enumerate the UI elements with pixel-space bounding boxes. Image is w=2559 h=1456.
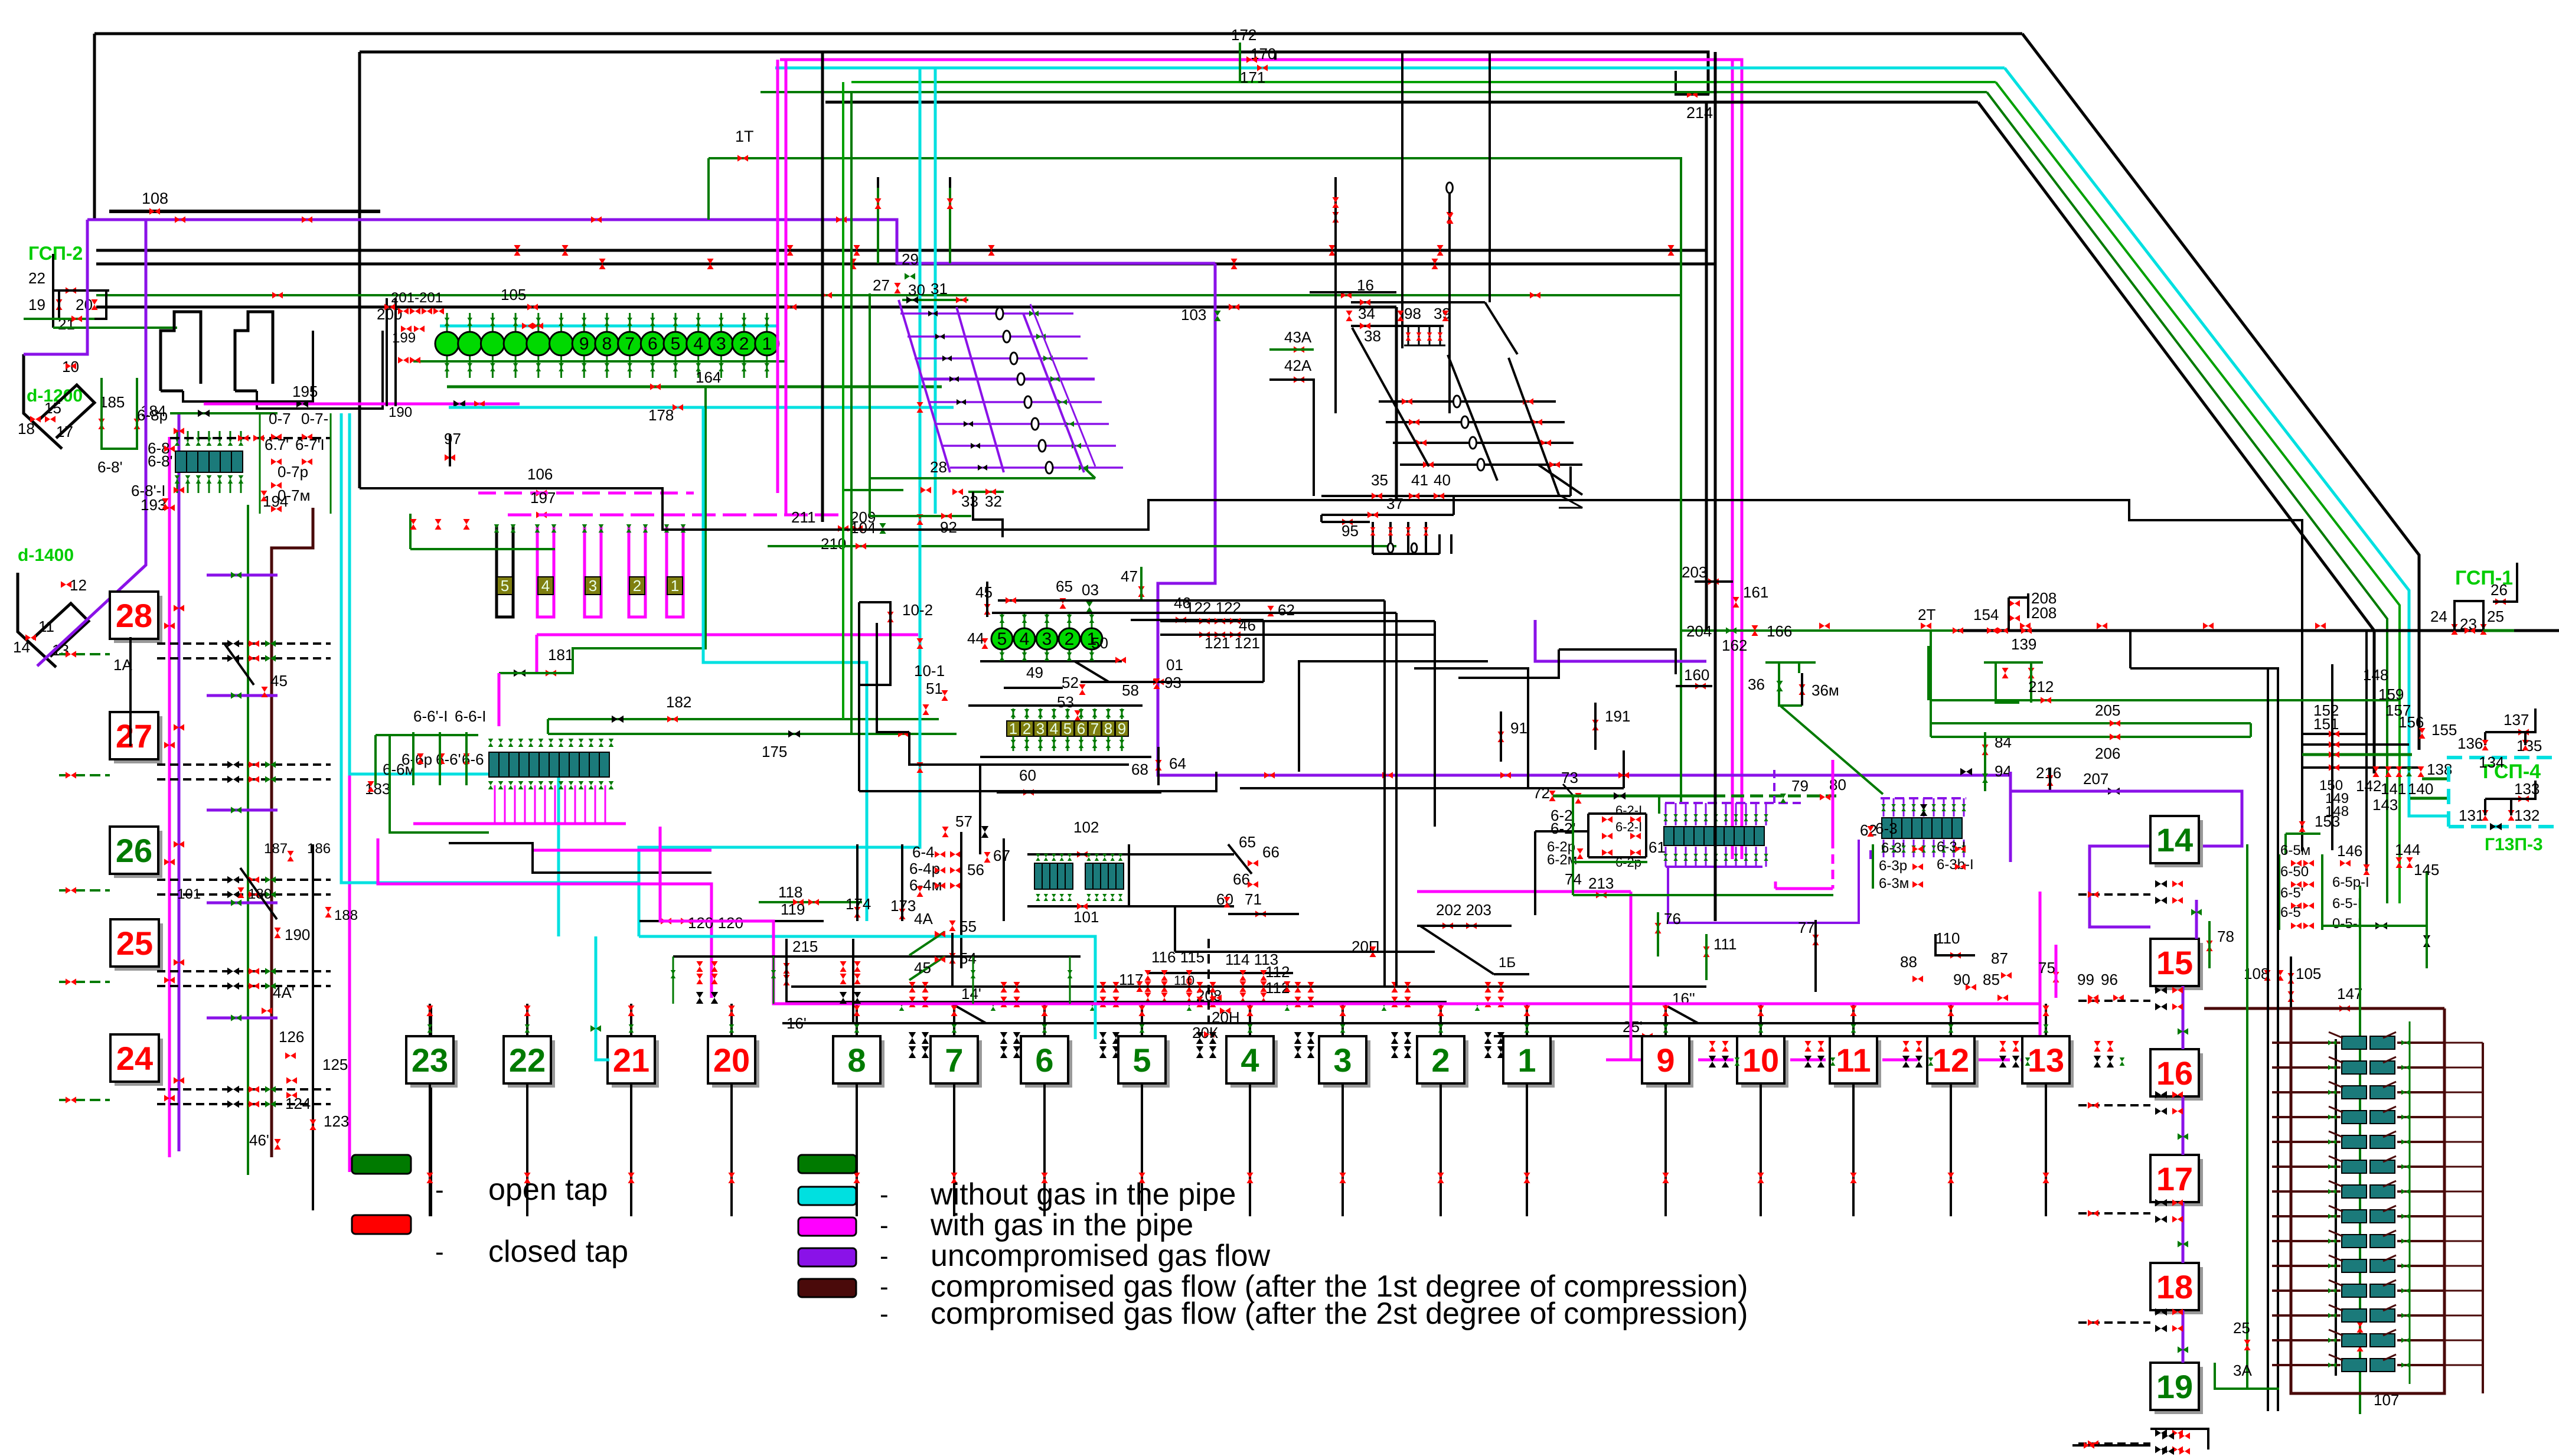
svg-text:56: 56	[967, 861, 984, 879]
svg-text:71: 71	[1245, 890, 1262, 908]
svg-text:45: 45	[975, 583, 993, 601]
valve cluster	[1000, 982, 1007, 993]
svg-text:181: 181	[548, 646, 573, 664]
1T green line	[709, 158, 1681, 803]
svg-text:72: 72	[1533, 784, 1550, 802]
svg-text:52: 52	[1062, 674, 1079, 691]
svg-text:207: 207	[2083, 770, 2108, 788]
svg-text:12: 12	[1933, 1042, 1969, 1079]
svg-text:5: 5	[671, 334, 681, 354]
svg-text:97: 97	[444, 430, 461, 448]
unit unit 2	[1020, 721, 1033, 736]
svg-text:212: 212	[2028, 678, 2054, 696]
svg-text:2: 2	[1065, 629, 1075, 649]
93	[1153, 678, 1160, 689]
svg-text:116 115: 116 115	[1151, 948, 1205, 966]
svg-text:ГСП-1: ГСП-1	[2455, 567, 2513, 589]
unit unit 3	[585, 577, 600, 595]
svg-text:4: 4	[1241, 1042, 1259, 1079]
svg-text:66: 66	[1233, 870, 1250, 888]
svg-text:2: 2	[739, 334, 749, 354]
bank row	[2272, 1091, 2341, 1093]
svg-text:34: 34	[1358, 305, 1375, 322]
54 junction	[951, 933, 954, 987]
compressor unit circle	[675, 313, 677, 378]
svg-text:6-5м: 6-5м	[2280, 843, 2310, 858]
svg-text:160: 160	[1684, 666, 1709, 684]
svg-text:76: 76	[1664, 910, 1681, 928]
bottom trunk 2	[791, 985, 1706, 988]
node station 18	[2155, 1267, 2203, 1314]
center black L	[909, 732, 1129, 765]
svg-text:108: 108	[142, 190, 168, 207]
svg-text:14: 14	[2156, 821, 2193, 858]
svg-text:2: 2	[1431, 1042, 1450, 1079]
node station 23	[410, 1040, 458, 1088]
svg-text:92: 92	[940, 518, 957, 536]
svg-text:78: 78	[2217, 928, 2234, 945]
manifold 6-8 bank	[175, 451, 187, 472]
svg-text:22: 22	[28, 269, 45, 287]
svg-text:205: 205	[2095, 701, 2120, 719]
svg-text:66: 66	[1262, 843, 1279, 861]
bottom trunk 4 (25-line)	[1494, 1035, 2043, 1037]
svg-text:6: 6	[648, 334, 658, 354]
svg-text:39: 39	[1434, 305, 1451, 322]
legend col2	[798, 1155, 856, 1173]
left slope	[240, 868, 277, 919]
4A 45 diagonals	[909, 932, 945, 955]
node station 25	[115, 923, 163, 971]
svg-text:54: 54	[959, 949, 977, 967]
magenta drop verticals	[776, 60, 779, 493]
svg-text:191: 191	[1605, 707, 1630, 725]
svg-text:11: 11	[1836, 1042, 1871, 1079]
svg-text:144: 144	[2395, 841, 2420, 858]
bank row	[2272, 1141, 2341, 1143]
verticals 2890 2905	[1705, 102, 1708, 631]
station tail	[953, 1083, 955, 1216]
unit unit 9	[1115, 721, 1128, 736]
left vertical green	[247, 505, 249, 1175]
svg-text:135: 135	[2516, 737, 2542, 755]
svg-text:6: 6	[1035, 1042, 1053, 1079]
node station 9	[1646, 1040, 1693, 1088]
valve cluster 9-13	[1999, 1056, 2006, 1067]
svg-text:46: 46	[1239, 616, 1256, 634]
svg-text:3A: 3A	[2233, 1362, 2252, 1379]
black grid verticals	[1334, 188, 1337, 413]
black top trunk C	[825, 101, 1978, 104]
trunk 520	[96, 306, 1396, 309]
svg-text:19: 19	[2156, 1368, 2193, 1405]
svg-text:28: 28	[116, 597, 152, 634]
svg-text:5: 5	[1063, 720, 1072, 737]
unit unit 1	[1007, 721, 1020, 736]
svg-text:19: 19	[28, 296, 45, 314]
building connector	[183, 331, 313, 401]
svg-text:27: 27	[873, 276, 890, 294]
svg-text:87: 87	[1991, 949, 2008, 967]
circles row1 rail	[440, 325, 778, 328]
svg-text:65: 65	[1239, 833, 1256, 851]
6-2 window	[1535, 830, 1588, 833]
grid right verticals	[1489, 52, 1491, 302]
station stub	[59, 653, 110, 655]
node station 4	[1230, 1040, 1278, 1088]
left vertical magenta2	[348, 658, 351, 1172]
svg-text:6-2-I: 6-2-I	[1615, 803, 1642, 818]
bank row	[2272, 1190, 2341, 1193]
node station 28	[114, 596, 162, 643]
node station 22	[508, 1040, 555, 1088]
svg-text:-: -	[880, 1300, 889, 1328]
svg-text:18: 18	[18, 420, 35, 438]
6-2 green frame	[1573, 796, 1647, 862]
valve cluster	[909, 982, 915, 993]
svg-text:203: 203	[1682, 563, 1707, 581]
valve cluster	[1196, 982, 1203, 993]
node station 7	[935, 1040, 982, 1088]
bank row	[2272, 1364, 2341, 1366]
black v 4008	[2365, 631, 2368, 871]
svg-text:142: 142	[2356, 777, 2381, 795]
compressor unit circle	[583, 313, 585, 378]
svg-text:161: 161	[1743, 583, 1768, 601]
103 valve right	[2423, 935, 2430, 947]
svg-text:53: 53	[1057, 693, 1074, 711]
manifold 6-6 bank	[489, 752, 499, 777]
svg-text:190: 190	[285, 926, 310, 944]
valve cluster	[1391, 982, 1398, 993]
svg-text:151: 151	[2313, 715, 2339, 733]
svg-text:5: 5	[997, 629, 1007, 649]
svg-text:37: 37	[1386, 495, 1403, 512]
svg-text:14': 14'	[961, 985, 981, 1003]
valve cluster	[1484, 982, 1491, 993]
unit unit 4	[538, 577, 553, 595]
svg-text:33: 33	[961, 492, 978, 510]
svg-text:88: 88	[1900, 953, 1917, 971]
compressor unit circle	[629, 313, 631, 378]
svg-text:-: -	[880, 1180, 889, 1209]
svg-text:6-6-I: 6-6-I	[455, 707, 486, 725]
magenta frame	[660, 827, 2040, 1004]
compressor unit circle	[720, 313, 722, 378]
valve cluster 9-13	[1902, 1056, 1910, 1067]
maroon top rail	[2204, 1007, 2444, 1010]
bank inner green rail	[2409, 1021, 2411, 1384]
svg-text:74: 74	[1565, 870, 1582, 888]
svg-text:106: 106	[527, 465, 553, 483]
svg-text:10-2: 10-2	[902, 601, 933, 619]
svg-text:95: 95	[1341, 522, 1359, 540]
svg-text:126: 126	[279, 1028, 304, 1046]
svg-text:6-3м: 6-3м	[1879, 876, 1909, 892]
svg-text:23: 23	[412, 1042, 448, 1079]
scattered valves	[514, 245, 520, 256]
svg-text:139: 139	[2011, 635, 2036, 653]
svg-text:178: 178	[648, 406, 674, 424]
station stub	[59, 774, 110, 776]
diagonal bundle	[2022, 34, 2419, 750]
bank row	[2272, 1339, 2341, 1341]
node station 11	[1834, 1040, 1881, 1088]
svg-text:d-1400: d-1400	[18, 546, 74, 565]
valve cluster 9-13	[1804, 1056, 1811, 1067]
compressor unit circle	[537, 313, 539, 378]
svg-text:15: 15	[44, 399, 61, 417]
svg-text:110: 110	[1935, 929, 1960, 947]
svg-text:137: 137	[2503, 711, 2529, 729]
svg-text:155: 155	[2431, 721, 2457, 739]
svg-text:118: 118	[778, 883, 802, 901]
svg-text:40: 40	[1434, 471, 1451, 489]
6-8 frame	[170, 437, 331, 439]
svg-text:6-50: 6-50	[2280, 864, 2309, 880]
valve cluster 9-13	[2094, 1056, 2101, 1067]
node station 16	[2155, 1053, 2203, 1101]
svg-text:with gas in the pipe: with gas in the pipe	[930, 1208, 1193, 1242]
svg-text:10: 10	[62, 358, 79, 376]
svg-text:185: 185	[99, 393, 125, 411]
svg-text:3: 3	[716, 334, 726, 354]
svg-text:147: 147	[2337, 985, 2362, 1003]
node station 12	[1931, 1040, 1979, 1088]
svg-text:46': 46'	[249, 1131, 269, 1149]
svg-text:6-5': 6-5'	[2280, 885, 2303, 901]
svg-text:11: 11	[38, 618, 54, 635]
stairs 160	[1559, 649, 1676, 674]
station stub right	[2078, 1321, 2150, 1324]
svg-text:10: 10	[1742, 1042, 1779, 1079]
building outline 2	[235, 312, 273, 391]
19 bottom	[2072, 1444, 2150, 1447]
svg-text:27: 27	[116, 717, 152, 755]
svg-text:96: 96	[2101, 971, 2118, 988]
cyan path B pair	[341, 413, 639, 883]
node station 27	[114, 716, 162, 763]
purple right descend	[1869, 850, 1872, 859]
bank row	[2272, 1265, 2341, 1267]
svg-text:172: 172	[1231, 26, 1256, 44]
svg-text:-: -	[880, 1272, 889, 1301]
svg-text:2T: 2T	[1918, 606, 1935, 623]
svg-text:204: 204	[1686, 622, 1712, 640]
building outline 1	[161, 312, 201, 391]
bank row	[2272, 1240, 2341, 1242]
olive units 5..1	[497, 525, 513, 617]
station tail	[2045, 1083, 2047, 1216]
svg-text:162: 162	[1722, 636, 1747, 654]
svg-text:186: 186	[307, 841, 331, 857]
long black vertical 1393	[821, 52, 824, 522]
svg-text:47: 47	[1121, 567, 1138, 585]
svg-text:67: 67	[993, 847, 1010, 864]
svg-text:6-3: 6-3	[1875, 820, 1898, 837]
station tail	[856, 1083, 858, 1216]
190	[274, 928, 280, 938]
valve cluster	[1099, 982, 1106, 993]
purple trunk verticals right	[1535, 620, 1706, 661]
svg-text:3: 3	[1042, 629, 1052, 649]
station stub right	[2078, 1212, 2150, 1215]
svg-text:28: 28	[930, 458, 947, 476]
svg-text:188: 188	[334, 907, 358, 923]
station tail	[1950, 1083, 1952, 1216]
svg-text:32: 32	[985, 492, 1002, 510]
svg-text:103: 103	[1181, 306, 1206, 324]
svg-text:0-7: 0-7	[269, 410, 291, 427]
staircase B	[449, 843, 711, 873]
104 green	[768, 545, 1396, 547]
unit unit 8	[1102, 721, 1115, 736]
svg-text:16: 16	[2156, 1055, 2193, 1092]
compressor unit circle	[469, 313, 471, 378]
unit unit 4	[1047, 721, 1060, 736]
station tail	[1440, 1083, 1442, 1216]
svg-text:216: 216	[2036, 764, 2061, 782]
station tail	[630, 1083, 632, 1216]
svg-text:-: -	[880, 1211, 889, 1240]
station tail	[526, 1083, 528, 1216]
unit unit 5	[1061, 721, 1074, 736]
svg-text:171: 171	[1240, 68, 1265, 86]
svg-text:6-3p: 6-3p	[1879, 858, 1907, 874]
station tail	[1141, 1083, 1143, 1216]
unit unit 6	[1075, 721, 1088, 736]
svg-text:3: 3	[1036, 720, 1045, 737]
svg-text:25': 25'	[1623, 1018, 1643, 1036]
svg-text:49: 49	[1026, 664, 1043, 681]
svg-text:213: 213	[1588, 874, 1614, 892]
station tail	[1760, 1083, 1762, 1216]
svg-text:35: 35	[1371, 471, 1388, 489]
svg-text:-: -	[435, 1176, 444, 1204]
svg-text:03: 03	[1082, 581, 1099, 599]
svg-text:77: 77	[1798, 919, 1815, 936]
purple col	[2182, 986, 2185, 1049]
node station 3	[1323, 1040, 1370, 1088]
bank row	[2272, 1314, 2341, 1317]
svg-text:4: 4	[1050, 720, 1058, 737]
svg-text:175: 175	[762, 743, 787, 760]
svg-text:3: 3	[1333, 1042, 1352, 1079]
svg-text:42A: 42A	[1284, 357, 1312, 374]
svg-text:2: 2	[1023, 720, 1031, 737]
6-6 frame	[374, 735, 377, 785]
svg-text:208: 208	[2031, 604, 2057, 622]
bank row	[2272, 1166, 2341, 1168]
svg-text:6-2-I: 6-2-I	[1615, 820, 1642, 834]
svg-text:4: 4	[541, 577, 550, 595]
left vertical magenta	[168, 437, 171, 1157]
magenta trunk mid	[537, 634, 918, 636]
svg-text:102: 102	[1073, 818, 1099, 836]
svg-text:121 121: 121 121	[1205, 634, 1260, 652]
svg-text:uncompromised gas flow: uncompromised gas flow	[931, 1239, 1271, 1273]
195 magenta	[204, 403, 520, 406]
station tail	[1249, 1083, 1251, 1216]
staircase A	[360, 488, 2302, 851]
svg-text:62: 62	[1278, 601, 1295, 619]
svg-text:8: 8	[602, 334, 612, 354]
purple inlet d-1400	[37, 220, 146, 666]
svg-text:6-5p-I: 6-5p-I	[2332, 874, 2369, 890]
svg-text:202 203: 202 203	[1436, 901, 1491, 919]
black grid window	[1351, 301, 1485, 303]
purple box15 top	[2195, 900, 2198, 939]
svg-text:98: 98	[1404, 305, 1421, 322]
legend open tap	[352, 1155, 411, 1174]
svg-text:7: 7	[625, 334, 635, 354]
magenta 9..13 trunk	[1606, 1059, 2040, 1062]
svg-text:36: 36	[1748, 675, 1765, 693]
compressor unit circle	[743, 313, 745, 378]
unit unit 1	[667, 577, 683, 595]
station stub right	[2078, 1104, 2150, 1106]
svg-text:112: 112	[1265, 963, 1290, 981]
svg-text:-: -	[435, 1238, 444, 1266]
svg-text:58: 58	[1122, 681, 1139, 699]
svg-text:31: 31	[931, 280, 948, 298]
svg-text:3: 3	[589, 577, 597, 595]
compressor unit circle	[446, 313, 448, 378]
manifold 6-3 bank	[1882, 818, 1892, 838]
black grid rows	[1379, 400, 1556, 403]
unit unit 7	[1088, 721, 1101, 736]
hook above boxes	[2129, 631, 2132, 668]
svg-text:38: 38	[1364, 327, 1381, 345]
svg-text:5: 5	[1132, 1042, 1151, 1079]
svg-text:120 120: 120 120	[688, 914, 743, 932]
green drop verticals	[842, 82, 844, 719]
node station 19	[2155, 1367, 2203, 1414]
svg-text:1: 1	[1517, 1042, 1536, 1079]
1T left bend	[707, 158, 710, 220]
unit unit 2	[629, 577, 645, 595]
svg-text:65: 65	[1056, 577, 1073, 595]
svg-text:17: 17	[56, 423, 73, 440]
svg-text:154: 154	[1973, 606, 1999, 623]
svg-text:20: 20	[76, 296, 93, 314]
station stub right	[2078, 1442, 2150, 1445]
svg-text:9: 9	[579, 334, 589, 354]
svg-text:without gas in the pipe: without gas in the pipe	[930, 1177, 1236, 1212]
long cyan verticals	[639, 68, 920, 936]
svg-text:43A: 43A	[1284, 328, 1312, 346]
olive row 1..9	[968, 704, 1143, 707]
node station 6	[1025, 1040, 1072, 1088]
svg-text:29: 29	[902, 250, 919, 268]
svg-text:17: 17	[2156, 1160, 2193, 1197]
node station 20	[712, 1040, 759, 1088]
svg-text:9: 9	[1118, 720, 1126, 737]
svg-text:25: 25	[116, 925, 153, 962]
station stub right	[2078, 1000, 2150, 1002]
center verticals	[979, 765, 981, 854]
svg-text:64: 64	[1169, 755, 1186, 772]
svg-text:compromised gas flow (after th: compromised gas flow (after the 2st degr…	[931, 1297, 1748, 1331]
svg-text:6-6м: 6-6м	[383, 760, 415, 778]
green top trunk A	[851, 81, 1996, 83]
svg-text:12: 12	[70, 576, 87, 594]
svg-text:6-8': 6-8'	[97, 458, 123, 476]
svg-text:closed tap: closed tap	[488, 1235, 628, 1269]
svg-text:ГСП-2: ГСП-2	[28, 243, 83, 264]
GSP-1 trunk	[1681, 629, 1958, 632]
left vertical purple	[178, 413, 181, 1151]
